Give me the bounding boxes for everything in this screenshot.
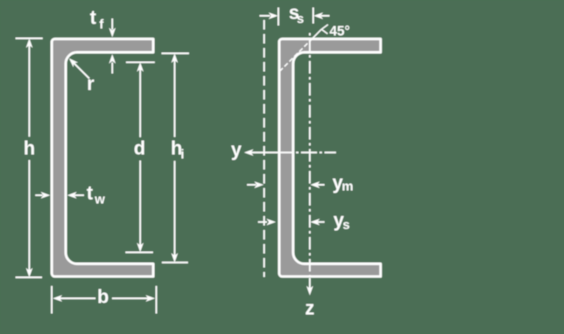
svg-text:h: h [23,138,35,159]
svg-text:45°: 45° [330,24,350,39]
channel section right (profile) [279,39,380,277]
dim t_f lower arrow [109,54,116,73]
y axis dash-dot line [231,140,336,161]
dim s_s [260,3,330,26]
45 degree construction line [280,24,350,72]
svg-text:r: r [87,74,95,95]
channel section left (profile) [52,39,153,277]
z centroid axis dash-dot line [305,30,315,320]
dim y_m [247,173,353,194]
dim t_f label [90,8,104,31]
svg-text:s: s [343,217,350,232]
dim b [52,286,157,314]
svg-text:w: w [94,191,106,206]
dim t_w [35,184,106,207]
svg-text:s: s [297,11,304,26]
dim d [125,62,154,252]
svg-text:z: z [305,299,315,320]
svg-text:d: d [134,139,146,160]
shear centre dashed line [263,20,265,277]
dim h [16,38,43,277]
svg-text:y: y [231,140,242,161]
svg-text:i: i [181,146,185,161]
dim t_f upper arrow [109,19,116,38]
dim y_s [258,210,350,232]
svg-text:b: b [97,287,109,308]
svg-text:m: m [342,178,354,193]
svg-text:t: t [87,184,94,205]
svg-text:f: f [99,16,104,31]
label r with arrow [69,58,95,95]
svg-text:t: t [90,8,97,29]
dim h_i [162,53,190,262]
